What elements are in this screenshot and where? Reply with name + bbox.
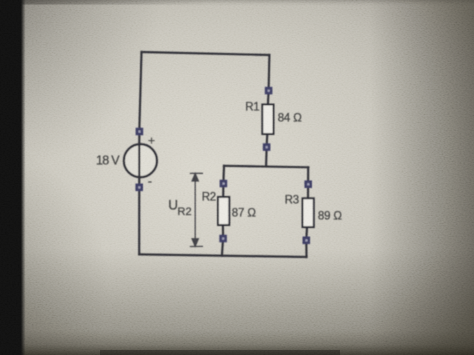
terminal square: R3 top [304, 180, 312, 188]
arrowhead up [192, 174, 198, 181]
arrow bottom tick [190, 245, 203, 247]
wire: R2 branch vertical [222, 166, 225, 197]
terminal square: source top [136, 128, 144, 136]
resistor R2 body [218, 197, 229, 225]
bezel: top dark edge [0, 0, 474, 6]
terminal square: R3 bottom [303, 237, 311, 245]
wire: R1 branch vertical [268, 55, 270, 105]
wire: top horizontal [142, 52, 270, 55]
terminal square: R2 bottom [219, 235, 227, 243]
voltage source V1 circle [124, 144, 157, 177]
terminal square: source bottom [135, 184, 143, 192]
wire: R3 branch vertical [307, 167, 309, 198]
wire: left vertical through source [139, 52, 141, 254]
arrow top tick [190, 172, 203, 174]
terminal square: R2 top [220, 180, 228, 188]
bezel: left black strip [0, 0, 21, 355]
voltage arrow U_R2 [190, 173, 203, 246]
arrow shaft [194, 176, 196, 244]
terminal square: R1 top [265, 87, 273, 95]
resistor R1 body [262, 105, 273, 135]
wire: parallel top rail [224, 166, 308, 168]
wire: bottom rail [139, 254, 306, 257]
resistor R3 body [303, 198, 314, 227]
bezel: bottom dark strip centre [100, 350, 340, 355]
terminal square: R1 bottom [263, 143, 271, 151]
arrowhead down [192, 239, 198, 246]
